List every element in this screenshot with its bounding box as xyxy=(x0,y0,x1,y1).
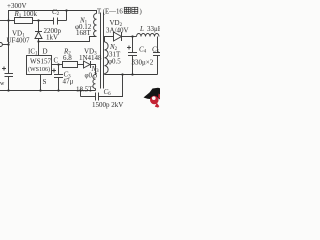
svg-text:w: w xyxy=(0,81,5,87)
svg-text:L33μH: L33μH xyxy=(139,25,160,33)
svg-text:47μ: 47μ xyxy=(63,78,74,86)
svg-text:D: D xyxy=(43,48,48,56)
svg-text:+300V: +300V xyxy=(7,2,27,10)
svg-text:φ0.5: φ0.5 xyxy=(108,58,121,66)
svg-text:18.5T: 18.5T xyxy=(76,86,93,94)
svg-text:R1 100k: R1 100k xyxy=(14,10,38,19)
svg-text:S: S xyxy=(43,78,47,86)
svg-text:3A/40V: 3A/40V xyxy=(106,27,129,35)
svg-text:C: C xyxy=(54,57,59,65)
svg-text:T (E—16: T (E—16 xyxy=(97,9,123,16)
svg-text:(WS106): (WS106) xyxy=(28,66,50,73)
svg-text:1kV: 1kV xyxy=(46,34,58,42)
svg-text:168T: 168T xyxy=(76,29,92,37)
svg-text:1500p 2kV: 1500p 2kV xyxy=(92,101,123,109)
svg-text:1N4148: 1N4148 xyxy=(79,54,102,62)
svg-text:330μ×2: 330μ×2 xyxy=(132,59,154,67)
svg-text:UF4007: UF4007 xyxy=(7,37,30,45)
svg-text:WS157: WS157 xyxy=(30,58,52,66)
svg-text:φ0.3: φ0.3 xyxy=(85,72,98,80)
svg-text:6.8: 6.8 xyxy=(63,54,72,62)
svg-text:): ) xyxy=(140,9,142,16)
